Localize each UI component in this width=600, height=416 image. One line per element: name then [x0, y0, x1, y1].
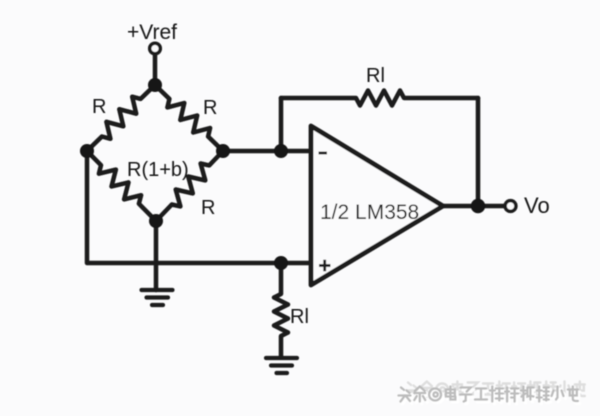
watermark main layer: [399, 387, 578, 402]
watermark ghost layer: [406, 382, 585, 397]
wire: output to Vo terminal: [443, 204, 505, 209]
watermark emboss highlight: [401, 389, 580, 404]
svg-text:R: R: [203, 97, 217, 119]
terminal: +Vref: [150, 43, 161, 54]
svg-text:Rl: Rl: [290, 306, 309, 328]
resistor R (bridge top-left): [87, 85, 155, 151]
op-amp U1 1/2 LM358: [311, 126, 443, 285]
wire: feedback left vertical: [279, 98, 284, 151]
wire: feedback right vertical to output: [476, 98, 481, 206]
resistor Rl (feedback): [281, 91, 478, 106]
resistor R(1+b) (bridge bottom-left): [87, 151, 156, 221]
node: bridge top junction: [148, 78, 162, 92]
node: bridge left junction: [80, 144, 94, 158]
ground (below Rl): [266, 358, 297, 373]
ground (bridge bottom): [142, 290, 173, 305]
node: bridge right junction: [216, 144, 230, 158]
svg-text:Rl: Rl: [366, 65, 385, 87]
wire: bridge bottom node down to ground: [154, 221, 159, 290]
resistor R (bridge top-right): [155, 85, 223, 151]
node: Rl / non-inverting input junction: [274, 256, 288, 270]
svg-text:Vo: Vo: [524, 193, 550, 218]
pin label + (non-inverting input): [319, 260, 331, 272]
wire: inverting input rail: [223, 149, 311, 154]
svg-text:R(1+b): R(1+b): [127, 159, 189, 181]
svg-text:R: R: [92, 96, 106, 118]
resistor Rl (to ground at + input): [274, 263, 288, 357]
svg-text:1/2 LM358: 1/2 LM358: [320, 201, 419, 224]
pin label - (inverting input): [319, 152, 328, 155]
terminal: Vo: [505, 201, 516, 212]
node: bridge bottom junction: [149, 214, 163, 228]
resistor R (bridge bottom-right): [156, 151, 223, 221]
wire: +Vref terminal stem: [153, 54, 158, 85]
wire: left node down and bottom rail to + input: [87, 151, 311, 263]
svg-text:+Vref: +Vref: [127, 21, 177, 44]
node: feedback / inverting input junction: [274, 144, 288, 158]
svg-text:R: R: [201, 197, 215, 219]
node: op-amp output junction: [471, 199, 485, 213]
